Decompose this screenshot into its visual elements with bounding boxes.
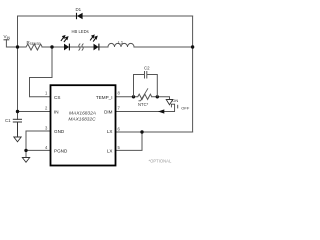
node: VIN junction — [16, 45, 19, 48]
wire: IN stub — [18, 111, 51, 113]
wire: top rail VIN to D1 to LX — [18, 16, 193, 47]
svg-text:1: 1 — [45, 91, 48, 96]
diode D1 — [76, 7, 83, 19]
node: LX branch junction — [140, 130, 143, 133]
svg-text:PGND: PGND — [54, 148, 68, 153]
svg-text:LX: LX — [107, 129, 113, 134]
DIM arrowhead — [158, 109, 164, 113]
svg-text:D1: D1 — [76, 7, 82, 12]
LED 1 (HB LED) — [61, 36, 70, 51]
svg-text:RSENSE: RSENSE — [27, 40, 41, 46]
wire: DIM net — [116, 111, 175, 113]
svg-text:C1: C1 — [5, 118, 11, 123]
node: TEMP_I right junction — [156, 95, 159, 98]
resistor Rsense — [26, 44, 42, 50]
svg-text:*OPTIONAL: *OPTIONAL — [149, 159, 172, 164]
svg-text:2: 2 — [45, 106, 48, 111]
wire: LX pin5 branch — [116, 132, 142, 150]
svg-text:7: 7 — [118, 106, 121, 111]
wire: L1 to right rail — [134, 46, 193, 48]
svg-text:MAX16832C: MAX16832C — [68, 116, 96, 122]
svg-text:OFF: OFF — [181, 106, 190, 111]
svg-text:ON: ON — [172, 98, 178, 103]
svg-text:DIM: DIM — [104, 110, 113, 115]
svg-text:8: 8 — [118, 91, 121, 96]
inductor L1 — [108, 43, 134, 47]
svg-text:HB LEDs: HB LEDs — [72, 29, 89, 34]
Vin terminal — [4, 39, 10, 41]
svg-text:GND: GND — [54, 129, 65, 134]
node: LX right rail junction — [191, 45, 194, 48]
node: CS junction — [50, 45, 53, 48]
svg-text:6: 6 — [118, 127, 121, 132]
svg-text:VIN: VIN — [4, 34, 11, 40]
ground (NTC) — [166, 100, 173, 105]
svg-text:TEMP_I: TEMP_I — [96, 95, 113, 100]
svg-text:4: 4 — [45, 145, 48, 150]
svg-text:MAX16832A: MAX16832A — [69, 111, 96, 117]
switch ON/OFF — [171, 104, 177, 111]
LED string break marks — [79, 44, 81, 51]
IC U1 MAX16832 box — [51, 85, 116, 165]
svg-text:IN: IN — [54, 110, 59, 115]
ground (C1) — [14, 137, 21, 142]
node: TEMP_I left junction — [132, 95, 135, 98]
svg-text:CS: CS — [54, 95, 60, 100]
node: PGND junction — [24, 149, 27, 152]
node: IN junction — [16, 110, 19, 113]
svg-text:5: 5 — [118, 145, 121, 150]
wire: LX pin6 row — [116, 131, 193, 133]
wire: left rail down to C1 — [17, 47, 19, 119]
LED 2 (HB LED) — [90, 35, 99, 50]
wire: right rail (LX net) — [192, 16, 194, 132]
wire: PGND stub — [26, 149, 50, 151]
svg-text:LX: LX — [107, 148, 113, 153]
thermistor NTC — [138, 94, 152, 99]
capacitor C2 — [134, 71, 158, 97]
wire: main branch VIN terminal to Rsense — [6, 40, 26, 47]
ground (PGND) — [22, 158, 29, 163]
svg-text:NTC*: NTC* — [138, 102, 149, 107]
svg-text:3: 3 — [45, 126, 48, 131]
wire: CS trace staircase — [30, 47, 53, 97]
svg-text:L1: L1 — [118, 40, 123, 45]
wire: GND stub — [26, 131, 50, 158]
wire: TEMP_I net — [116, 96, 138, 98]
capacitor C1 — [13, 119, 22, 137]
svg-text:C2: C2 — [144, 65, 150, 70]
wire: Rsense to LED string to L1 — [42, 46, 108, 48]
